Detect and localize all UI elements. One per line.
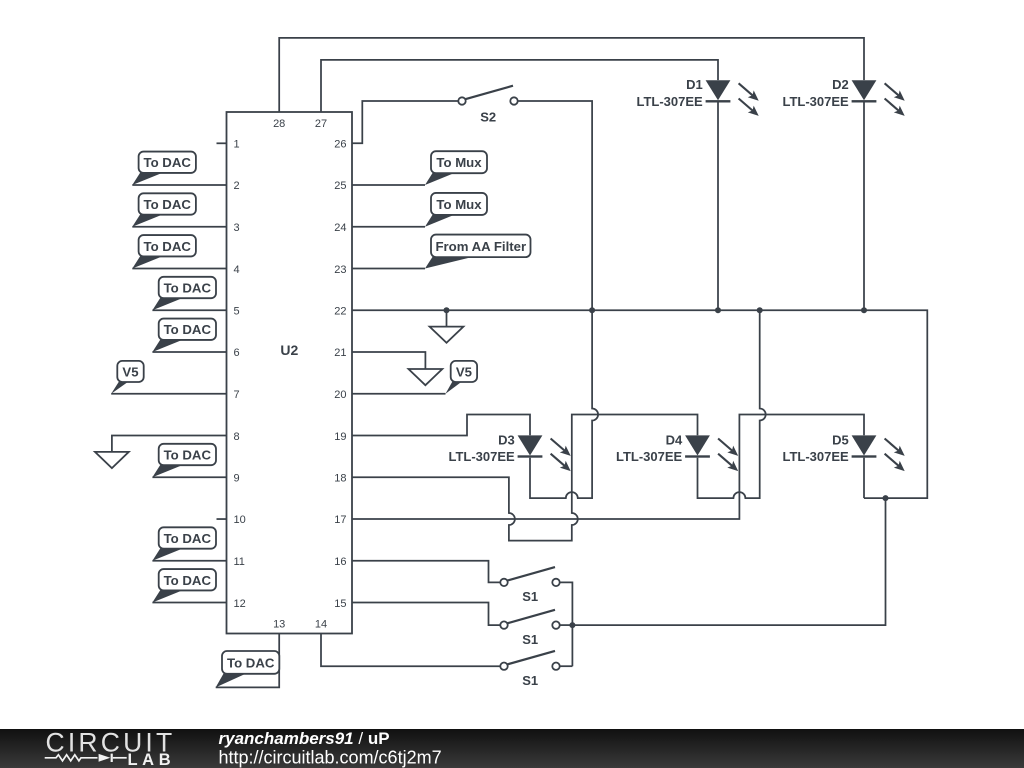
wire pin 9 — [152, 476, 226, 478]
wire pin 15 to S1b — [352, 603, 500, 626]
wire pin 8 to ground — [112, 436, 227, 452]
wire S1 common to D5 cathode — [572, 498, 885, 625]
LED D4 — [616, 432, 738, 471]
pin 10 stub of U2 — [217, 518, 227, 520]
wire net22 (pin 22 rail) — [352, 310, 927, 498]
net flag To DAC (pin 2) — [132, 152, 196, 186]
wire pin 21 to ground — [352, 352, 425, 369]
wire pin 11 — [152, 560, 226, 562]
net flag From AA Filter (pin 23) — [425, 235, 531, 269]
wire pin 23 — [352, 268, 425, 270]
net flag V5 (pin 7) — [111, 361, 144, 394]
node net22/D3 cathode — [589, 307, 595, 313]
ground (net22 tap) — [430, 327, 464, 343]
wire pin 12 — [152, 602, 226, 604]
wire pin 19 to D3 anode — [352, 415, 530, 436]
net flag To DAC (pin 3) — [132, 193, 196, 227]
switch S2 — [458, 86, 517, 125]
net flag V5 (pin 20) — [446, 361, 478, 394]
wire pin 7 — [111, 393, 226, 395]
pin 1 stub of U2 — [217, 142, 227, 144]
wire pin 2 — [132, 184, 226, 186]
node net22/D4 cathode — [757, 307, 763, 313]
wire pin 16 to S1a — [352, 561, 500, 583]
wire D4 cathode to net22 (hops) — [698, 310, 766, 498]
wire pin 4 — [132, 268, 226, 270]
wire pin 17 to D5 anode — [352, 415, 864, 520]
wire S1a right to S1c right — [560, 582, 573, 666]
wire pin 25 — [352, 184, 425, 186]
ground (pin 8) — [95, 452, 129, 468]
net flag To Mux (pin 25) — [425, 151, 487, 185]
pin numbers of U2 — [234, 118, 347, 630]
LED D3 — [448, 432, 570, 471]
wire pin 14 to S1c — [321, 634, 500, 667]
net flag To DAC (pin 5) — [152, 277, 216, 311]
net flag To Mux (pin 24) — [425, 193, 487, 227]
wire D5 cathode — [863, 458, 865, 498]
node D5 cathode junction — [883, 495, 889, 501]
wire S2 to net22 — [518, 101, 592, 310]
switch S1 (b) — [500, 610, 559, 647]
wire D3 cathode to net22 (hops) — [530, 310, 598, 498]
wire S1b right stub — [560, 624, 573, 626]
IC U2 body (28-pin microprocessor) — [227, 112, 353, 634]
wire ground tap on net22 — [446, 310, 448, 326]
wire pin 5 — [152, 309, 226, 311]
wire pin 13 — [216, 634, 280, 688]
net flag To DAC (pin 9) — [152, 444, 216, 478]
net flag To DAC (pin 12) — [152, 569, 216, 603]
LED D1 — [636, 77, 758, 116]
CircuitLab logo diode symbol — [99, 754, 111, 762]
wire pin 26 to S2 — [352, 101, 458, 143]
svg-text:LAB: LAB — [128, 751, 176, 768]
svg-text:http://circuitlab.com/c6tj2m7: http://circuitlab.com/c6tj2m7 — [219, 747, 442, 767]
footer bar — [0, 729, 1024, 768]
wire pin 20 — [352, 393, 446, 395]
node net22/ground tap — [444, 307, 450, 313]
node net22/D2 cathode — [861, 307, 867, 313]
wire pin 18 to D4 anode (hops) — [352, 415, 698, 541]
LED D5 — [782, 432, 904, 471]
wire pin 3 — [132, 226, 226, 228]
node net22/D1 cathode — [715, 307, 721, 313]
wire D1 cathode to node — [717, 103, 719, 311]
wire pin 24 — [352, 226, 425, 228]
CircuitLab logo resistor symbol — [45, 755, 98, 761]
wire D2 cathode to node — [863, 103, 865, 311]
net flag To DAC (pin 4) — [132, 235, 196, 268]
switch S1 (a) — [500, 567, 559, 604]
wire S1c right stub — [560, 665, 573, 667]
wire pin 6 — [152, 351, 226, 353]
wire pin 27 to D1 anode — [321, 60, 718, 112]
net flag To DAC (pin 11) — [152, 527, 216, 561]
wire pin 28 to D2 anode — [279, 38, 864, 112]
node S1 common junction — [569, 622, 575, 628]
net flag To DAC (pin 6) — [152, 319, 216, 353]
LED D2 — [782, 77, 904, 116]
svg-text:ryanchambers91 / uP: ryanchambers91 / uP — [219, 729, 390, 748]
net flag To DAC (pin 13) — [216, 651, 280, 687]
ground (pin 21) — [409, 369, 443, 385]
switch S1 (c) — [500, 651, 559, 688]
